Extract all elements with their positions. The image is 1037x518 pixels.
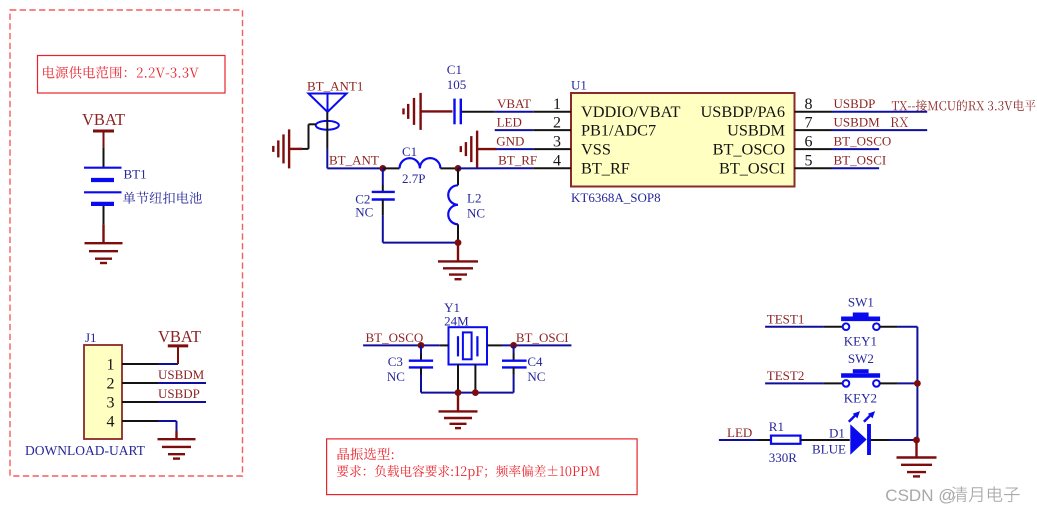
svg-text:BT_OSCO: BT_OSCO [713,139,786,158]
wire (ground step) [309,123,316,125]
power section dashed box [10,10,243,476]
pin 3 wire [533,148,571,150]
ground (C1 105) [421,110,453,112]
svg-text:BT1: BT1 [124,167,147,182]
note: crystal selection box [327,439,637,495]
net label USBDP [158,401,206,403]
junction [913,437,920,444]
svg-text:R1: R1 [769,419,784,434]
pin 7 wire [795,129,832,131]
svg-text:C1: C1 [447,62,462,77]
ground (RF match) [457,243,459,262]
capacitor C4 NC [513,345,515,353]
wire [103,147,105,167]
net label BT_OSCO (pin6) [832,148,880,150]
wire [801,439,850,441]
svg-text:BT_OSCO: BT_OSCO [366,330,424,345]
svg-text:SW1: SW1 [848,295,874,310]
ground (antenna) [289,148,302,150]
svg-text:VBAT: VBAT [158,327,201,346]
svg-text:BT_ANT1: BT_ANT1 [307,79,363,94]
svg-text:6: 6 [805,134,813,151]
svg-text:330R: 330R [769,450,798,465]
capacitor C3 NC [420,345,422,353]
ground (keys) [915,440,917,458]
note text 电源供电范围：2.2V-3.3V [43,66,199,79]
svg-text:105: 105 [447,77,467,92]
svg-text:3: 3 [107,394,115,411]
svg-text:NC: NC [387,369,405,384]
svg-text:BT_OSCI: BT_OSCI [719,159,785,178]
wire [103,206,105,225]
wire [871,439,889,441]
pin 1 wire [122,363,158,365]
LED arrows [849,416,855,422]
net label LED [719,439,758,441]
resistor R1 330R [771,436,801,444]
capacitor C2 NC [382,168,384,185]
svg-text:SW2: SW2 [848,351,874,366]
wire (crystal bottom) [421,392,514,394]
svg-text:L2: L2 [467,191,481,206]
svg-text:2: 2 [107,375,115,392]
svg-text:1: 1 [107,356,115,373]
pin 1 wire [533,111,571,113]
svg-text:DOWNLOAD-UART: DOWNLOAD-UART [25,443,146,458]
svg-text:KT6368A_SOP8: KT6368A_SOP8 [571,190,661,205]
svg-text:USBDM: USBDM [158,367,205,382]
junction [455,165,462,172]
note RX [891,118,909,128]
pin 8 wire [795,111,832,113]
pin 6 wire [795,148,832,150]
svg-text:BT_OSCO: BT_OSCO [834,134,892,149]
wire (crystal case pin) [457,365,459,393]
svg-text:GND: GND [496,133,524,148]
svg-text:NC: NC [467,206,485,221]
svg-text:C1: C1 [402,144,417,159]
battery BT1 [84,167,122,169]
svg-text:TEST2: TEST2 [767,368,805,383]
note: power supply range box [38,56,226,94]
note text 晶振选型: [338,448,394,460]
net label LED (pin2) [495,129,534,131]
label 单节纽扣电池 [123,192,202,204]
svg-text:VBAT: VBAT [82,110,125,129]
svg-text:CSDN @: CSDN @ [885,486,955,505]
pin 2 wire [122,382,158,384]
net label BT_OSCI (crystal) [502,344,571,346]
pin 2 wire [533,129,571,131]
svg-text:D1: D1 [829,425,845,440]
svg-text:4: 4 [553,153,561,170]
svg-text:J1: J1 [85,330,97,345]
svg-text:2.7P: 2.7P [402,171,425,186]
junction [418,342,425,349]
svg-text:BT_RF: BT_RF [581,159,630,178]
svg-text:KEY1: KEY1 [844,334,877,349]
svg-text:1: 1 [553,96,561,113]
net label BT_OSCI (pin5) [832,167,880,169]
net label USBDP (pin8) [832,111,928,113]
svg-text:3: 3 [553,134,561,151]
ground (GND pin3) [477,148,496,150]
svg-text:BLUE: BLUE [812,441,846,456]
svg-text:BT_OSCI: BT_OSCI [834,153,887,168]
svg-text:8: 8 [805,96,813,113]
capacitor C1 2.7P (coil symbol) [383,167,400,169]
note TX--接MCU的RX 3.3V电平 [892,100,1036,112]
svg-text:USBDM: USBDM [727,120,785,139]
net label GND (pin3) [496,148,534,150]
svg-text:NC: NC [355,205,373,220]
junction [914,380,921,387]
net label VBAT (pin1) [495,111,534,113]
wire (crystal case pin) [474,365,476,393]
svg-text:VSS: VSS [581,139,611,158]
svg-text:VDDIO/VBAT: VDDIO/VBAT [581,102,681,121]
wire (antenna stem) [326,112,328,149]
svg-text:C4: C4 [527,354,543,369]
net label USBDM (pin7) [832,129,928,131]
svg-text:4: 4 [107,413,115,430]
pin 3 wire [122,401,158,403]
junction [455,389,462,396]
svg-text:BT_RF: BT_RF [498,152,537,167]
svg-text:PB1/ADC7: PB1/ADC7 [581,120,656,139]
wire [462,111,495,113]
ground (J1) [175,431,177,439]
pin 4 wire [122,420,158,422]
svg-text:NC: NC [527,369,545,384]
svg-text:BT_OSCI: BT_OSCI [516,330,569,345]
svg-text:KEY2: KEY2 [844,390,877,405]
svg-text:USBDP: USBDP [158,386,200,401]
wire [458,167,533,169]
svg-text:USBDP/PA6: USBDP/PA6 [701,102,785,121]
junction [510,342,517,349]
wire [327,167,383,169]
svg-text:BT_ANT: BT_ANT [329,152,379,167]
svg-text:LED: LED [497,114,522,129]
junction [379,165,386,172]
pin 4 wire [533,167,571,169]
svg-text:USBDP: USBDP [834,96,876,111]
svg-text:VBAT: VBAT [497,96,531,111]
svg-text:U1: U1 [571,78,587,93]
ground (crystal) [457,393,459,412]
pin 5 wire [795,167,832,169]
wire [758,439,771,441]
LED D1 BLUE [850,424,866,454]
wire [383,242,458,244]
junction [472,389,479,396]
svg-text:TEST1: TEST1 [767,311,805,326]
wire [158,363,178,365]
svg-text:2: 2 [553,115,561,132]
svg-text:5: 5 [805,153,813,170]
svg-text:USBDM: USBDM [834,115,881,130]
net label BT_OSCO (crystal) [363,344,440,346]
svg-text:C3: C3 [388,354,403,369]
inductor L2 NC [457,168,459,185]
junction [455,239,462,246]
svg-text:24M: 24M [444,313,469,328]
wire (keys common) [916,327,918,440]
svg-text:7: 7 [805,115,813,132]
ground (battery) [102,225,104,244]
svg-text:LED: LED [727,425,752,440]
note text 要求：负载电容要求:12pF；频率偏差±10PPM [337,465,600,480]
wire [158,420,177,422]
net label USBDM [158,382,206,384]
wire (crystal left pin) [440,344,449,346]
wire (crystal right pin) [487,344,502,346]
